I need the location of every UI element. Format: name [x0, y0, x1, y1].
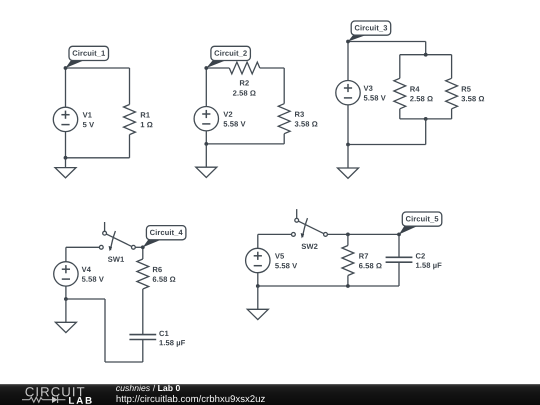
- resistor R7: [342, 246, 354, 276]
- wire C3 left upper: [347, 42, 349, 81]
- resistor R1: [124, 105, 136, 135]
- ground C5: [247, 309, 268, 319]
- R6 name label: [153, 267, 162, 272]
- resistor R5: [446, 78, 458, 109]
- wire C3 R4 upper: [399, 55, 401, 79]
- R3 name label: [295, 112, 304, 117]
- wire C2 left lower: [205, 131, 207, 144]
- junction C4 ground node: [64, 297, 68, 301]
- C2 value label: [416, 263, 442, 270]
- wire C5 R7 lower: [347, 276, 349, 287]
- switch SW2: [292, 209, 328, 249]
- wire C1 left upper: [65, 68, 67, 107]
- voltage source V2: [194, 107, 218, 131]
- V2 name label: [223, 112, 232, 117]
- node label Circuit_1: [64, 46, 109, 70]
- wire C1 left lower: [65, 132, 67, 158]
- footer bar: [0, 384, 540, 405]
- resistor R6: [137, 259, 149, 289]
- capacitor C2: [386, 257, 413, 262]
- resistor R4: [394, 78, 406, 109]
- wire C4 return horizontal: [66, 298, 105, 300]
- wire C4 below C1: [142, 340, 144, 363]
- resistor R2: [229, 62, 259, 74]
- voltage source V4: [54, 262, 78, 286]
- node label Circuit_3: [346, 21, 391, 43]
- wire C3 parallel top rail: [400, 54, 452, 56]
- wire C3 ground stem: [347, 145, 349, 169]
- wire C5 top rail to switch: [258, 233, 292, 235]
- R7 value label: [359, 263, 382, 268]
- wire C1 ground stem: [65, 158, 67, 168]
- V4 value label: [82, 276, 104, 281]
- wire C2 ground stem: [205, 144, 207, 167]
- CircuitLab logo: CIRCUIT wordmark: [25, 387, 84, 396]
- footer url text: [117, 395, 265, 404]
- junction C5 R7 top: [346, 233, 350, 237]
- wire C5 C2 lower: [398, 262, 400, 286]
- footer title text: cushnies / Lab 0: [116, 385, 150, 391]
- V2 value label: [224, 121, 246, 126]
- junction C2 bottom node: [204, 142, 208, 146]
- wire C5 R7 upper: [347, 234, 349, 245]
- V1 name label: [83, 112, 92, 117]
- V3 value label: [364, 95, 386, 100]
- wire C3 bottom rail: [348, 144, 426, 146]
- C1 name label: [159, 331, 168, 336]
- wire C4 left return vertical: [104, 299, 106, 362]
- wire C4 top rail to switch: [66, 246, 100, 248]
- logo LAB wordmark: [69, 397, 92, 404]
- wire C3 drop to parallel: [425, 42, 427, 55]
- wire C2 top left segment: [206, 67, 229, 69]
- wire C5 top rail switch to C2: [327, 233, 399, 235]
- wire C3 R5 upper: [451, 55, 453, 79]
- junction C3 bottom node: [346, 143, 350, 147]
- wire C3 top rail: [348, 41, 426, 43]
- V5 value label: [275, 263, 297, 268]
- voltage source V3: [336, 81, 360, 105]
- wire C1 right upper: [129, 68, 131, 105]
- wire C1 right lower: [129, 135, 131, 158]
- R1 value label: [141, 122, 153, 127]
- wire C4 V4 top stub: [65, 247, 67, 261]
- wire C5 C2 upper: [398, 234, 400, 257]
- ground C1: [55, 168, 76, 178]
- wire C1 bottom rail: [66, 157, 130, 159]
- wire C3 R4 lower: [399, 109, 401, 119]
- voltage source V1: [53, 107, 77, 131]
- wire C1 top rail: [66, 67, 130, 69]
- V4 name label: [82, 267, 91, 272]
- voltage source V5: [246, 248, 270, 272]
- wire C4 R6 to C1: [142, 289, 144, 335]
- wire C3 drop from parallel: [425, 119, 427, 145]
- wire C3 left lower: [347, 105, 349, 145]
- junction C1 bottom node: [64, 156, 68, 160]
- resistor R3: [278, 104, 290, 134]
- junction C5 R7 bottom: [346, 284, 350, 288]
- logo squiggle: wire resistor diode: [22, 396, 65, 403]
- wire C2 right upper: [283, 68, 285, 104]
- C2 name label: [416, 253, 425, 258]
- R5 name label: [462, 86, 471, 91]
- wire C4 switch to node: [135, 246, 143, 248]
- wire C5 ground stem: [257, 286, 259, 309]
- R6 value label: [153, 277, 176, 282]
- node label Circuit_5: [397, 212, 442, 236]
- wire C5 V5 bottom stub: [257, 273, 259, 286]
- V3 name label: [364, 86, 373, 91]
- R1 name label: [141, 112, 150, 117]
- node label Circuit_2: [204, 46, 250, 70]
- wire C2 right lower: [283, 134, 285, 144]
- R4 value label: [410, 96, 433, 101]
- junction C3 parallel top: [424, 53, 428, 57]
- R2 value label: [233, 90, 256, 95]
- R3 value label: [295, 121, 318, 126]
- wire C4 ground stem: [65, 299, 67, 322]
- wire C5 bottom rail: [258, 285, 399, 287]
- switch SW1: [99, 222, 135, 262]
- junction C3 parallel bottom: [424, 117, 428, 121]
- V1 value label: [83, 122, 94, 127]
- ground C4: [55, 322, 76, 332]
- wire C2 left upper: [205, 68, 207, 107]
- wire C4 bottom rail: [105, 361, 143, 363]
- wire C4 V4 bottom stub: [65, 286, 67, 299]
- R7 name label: [359, 253, 368, 258]
- wire C5 V5 top stub: [257, 234, 259, 248]
- wire C3 R5 lower: [451, 109, 453, 119]
- R5 value label: [461, 96, 484, 101]
- ground C2: [196, 167, 217, 177]
- R2 name label: [240, 80, 249, 85]
- ground C3: [338, 168, 359, 178]
- wire C4 R6 upper: [142, 247, 144, 259]
- junction C5 ground node: [256, 284, 260, 288]
- V5 name label: [275, 253, 284, 258]
- wire C2 bottom rail: [206, 143, 284, 145]
- wire C3 parallel bottom rail: [400, 118, 452, 120]
- capacitor C1: [129, 335, 156, 340]
- R4 name label: [410, 86, 419, 91]
- C1 value label: [159, 340, 185, 347]
- wire C2 top right segment: [260, 67, 284, 69]
- node label Circuit_4: [141, 226, 186, 250]
